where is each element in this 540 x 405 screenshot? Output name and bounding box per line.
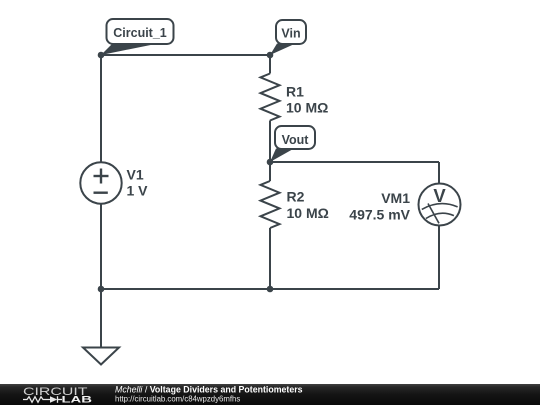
svg-text:LAB: LAB	[62, 394, 93, 405]
svg-text:Vin: Vin	[281, 27, 300, 41]
svg-text:10 MΩ: 10 MΩ	[286, 100, 328, 116]
svg-text:Vout: Vout	[282, 133, 310, 147]
svg-text:VM1: VM1	[381, 190, 410, 206]
svg-text:Mchelli / Voltage Dividers and: Mchelli / Voltage Dividers and Potentiom…	[115, 385, 303, 395]
svg-text:V: V	[433, 185, 446, 206]
svg-text:V1: V1	[127, 167, 144, 183]
svg-text:R1: R1	[286, 84, 304, 100]
svg-text:1 V: 1 V	[127, 183, 149, 199]
svg-text:497.5 mV: 497.5 mV	[349, 207, 410, 223]
svg-text:R2: R2	[287, 189, 305, 205]
svg-text:Circuit_1: Circuit_1	[113, 26, 167, 40]
svg-text:http://circuitlab.com/c84wpzdy: http://circuitlab.com/c84wpzdy6mfhs	[115, 395, 240, 404]
svg-text:10 MΩ: 10 MΩ	[287, 205, 329, 221]
